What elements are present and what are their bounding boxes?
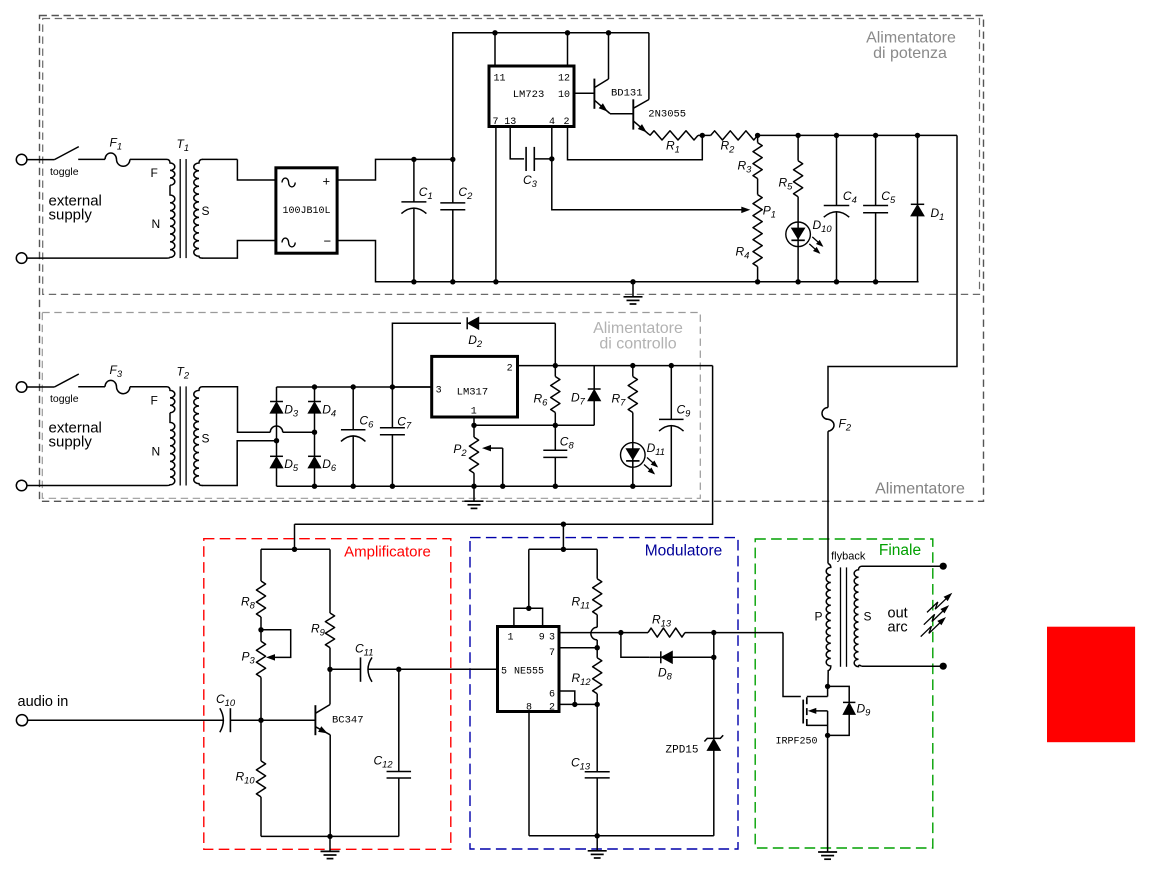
wire to distribution <box>295 366 713 525</box>
svg-text:supply: supply <box>49 207 93 224</box>
mod top rail <box>529 548 597 550</box>
junction <box>500 484 505 489</box>
junction <box>526 606 531 611</box>
wire secondary bottom to bridge <box>202 441 277 486</box>
mosfet Q4 IRPF250 <box>776 686 828 747</box>
svg-text:4: 4 <box>549 117 555 128</box>
wire <box>130 386 167 388</box>
wire output rail <box>758 134 957 136</box>
wire <box>698 134 711 136</box>
resistor R7 <box>612 366 638 443</box>
svg-text:Alimentatore: Alimentatore <box>875 481 965 498</box>
junction <box>572 702 577 707</box>
svg-text:LM723: LM723 <box>513 89 545 101</box>
junction <box>630 484 635 489</box>
svg-text:ZPD15: ZPD15 <box>666 745 699 757</box>
enclosure Alimentatore di potenza (dashed box) <box>43 19 980 295</box>
wire <box>414 158 453 160</box>
wire secondary bottom <box>862 665 944 667</box>
svg-text:BD131: BD131 <box>611 88 643 100</box>
svg-text:7: 7 <box>549 648 555 659</box>
wire <box>78 158 105 160</box>
svg-text:S: S <box>202 204 210 218</box>
resistor R3 <box>738 135 763 178</box>
wire pin6 <box>559 691 575 704</box>
junction <box>700 133 705 138</box>
svg-text:13: 13 <box>504 117 516 128</box>
transistor Q1 BD131 <box>594 79 642 114</box>
terminal J1 (line input) <box>16 154 27 165</box>
transformer T2 <box>151 365 210 486</box>
pin 13 label <box>504 117 516 128</box>
wire pin2 loop <box>568 127 703 160</box>
wire <box>27 257 167 259</box>
pin 2 label <box>563 117 569 128</box>
svg-text:N: N <box>152 217 161 231</box>
transformer T3 flyback <box>815 551 872 687</box>
diode D4 <box>308 387 336 432</box>
junction <box>795 279 800 284</box>
diode D6 <box>308 432 337 486</box>
pin 12 label <box>558 74 570 85</box>
regulator U1 LM723 <box>489 66 574 127</box>
wire <box>202 241 276 259</box>
capacitor C4 <box>824 135 857 281</box>
junction <box>565 30 570 35</box>
junction <box>390 484 395 489</box>
diode D5 <box>270 441 299 487</box>
junction <box>450 157 455 162</box>
wire pin1 <box>474 417 594 425</box>
junction <box>755 133 760 138</box>
ground <box>624 282 643 304</box>
potentiometer P2 <box>453 425 478 486</box>
svg-text:Modulatore: Modulatore <box>645 543 723 560</box>
junction <box>471 423 476 428</box>
capacitor C11 <box>330 642 399 682</box>
wire <box>337 241 414 282</box>
terminal out+ <box>940 563 947 570</box>
terminal out- <box>940 663 947 670</box>
wire to NE555 pin5 <box>399 668 498 670</box>
wire amp feed <box>294 524 296 549</box>
amp bottom rail <box>261 835 399 837</box>
switch S1 toggle <box>50 147 79 178</box>
terminal J3 (line input 2) <box>16 382 27 393</box>
svg-text:LM317: LM317 <box>457 386 489 398</box>
P3 wiper loop <box>261 630 291 661</box>
transistor Q3 BC347 <box>315 705 363 736</box>
bottom rail potenza <box>376 281 919 283</box>
pin 1 label <box>471 407 477 418</box>
timer U3 NE555 <box>498 627 560 712</box>
svg-text:3: 3 <box>436 386 442 397</box>
diode D1 <box>911 135 945 281</box>
junction <box>312 384 317 389</box>
pin 10 label <box>558 90 570 101</box>
wire mod feed <box>562 524 564 549</box>
svg-text:+: + <box>323 174 331 189</box>
fuse F1 <box>105 136 130 167</box>
junction <box>630 363 635 368</box>
pin1 loop <box>514 608 543 626</box>
capacitor C7 <box>380 387 412 486</box>
wire pin11 <box>494 33 496 66</box>
svg-text:−: − <box>324 234 332 249</box>
resistor R12 <box>572 648 602 705</box>
pin 3 label <box>436 386 442 397</box>
svg-text:flyback: flyback <box>831 551 866 563</box>
potentiometer P3 <box>242 630 266 720</box>
wire secondary top to bridge <box>202 387 315 432</box>
capacitor C10 <box>216 692 261 732</box>
junction <box>258 627 263 632</box>
junction <box>258 718 263 723</box>
red marker rectangle <box>1047 627 1135 743</box>
junction <box>493 279 498 284</box>
wire pin7 <box>495 127 497 282</box>
svg-text:Alimentatore: Alimentatore <box>866 30 956 47</box>
label external supply <box>49 193 102 224</box>
junction <box>553 484 558 489</box>
wire <box>827 431 829 563</box>
svg-text:2: 2 <box>549 703 555 714</box>
resistor R6 <box>534 366 560 426</box>
wire <box>337 159 414 180</box>
wire to P1 wiper <box>552 159 751 213</box>
resistor R13 <box>621 613 714 638</box>
wire mod out <box>714 632 783 634</box>
svg-text:IRPF250: IRPF250 <box>776 737 818 748</box>
junction <box>351 484 356 489</box>
junction <box>274 438 279 443</box>
junction <box>873 279 878 284</box>
svg-text:S: S <box>202 431 210 445</box>
ground <box>465 486 484 508</box>
diode D3 <box>270 387 299 441</box>
wire pin3 <box>559 632 621 634</box>
wire pin4 <box>551 127 553 159</box>
diode D8 <box>649 651 714 681</box>
pin 3 label <box>549 633 555 644</box>
svg-text:7: 7 <box>493 117 499 128</box>
pin 1 label <box>508 633 514 644</box>
resistor R4 <box>736 231 763 282</box>
wire D2 to rail <box>554 323 556 365</box>
wire base <box>261 719 315 721</box>
svg-text:11: 11 <box>494 74 506 85</box>
svg-text:10: 10 <box>558 90 570 101</box>
capacitor C1 <box>401 159 432 281</box>
wire BD131 collector <box>608 33 610 79</box>
junction <box>630 279 635 284</box>
svg-text:di potenza: di potenza <box>873 45 947 62</box>
wire <box>713 633 715 658</box>
led D10 <box>786 218 833 254</box>
svg-text:6: 6 <box>549 690 555 701</box>
svg-text:2N3055: 2N3055 <box>648 109 686 121</box>
pin 5 label <box>501 667 507 678</box>
junction <box>915 133 920 138</box>
wire <box>632 467 634 486</box>
capacitor C3 <box>523 147 552 189</box>
svg-text:2: 2 <box>507 363 513 374</box>
wire <box>202 158 237 160</box>
wire <box>27 386 54 388</box>
junction <box>595 833 600 838</box>
enclosure Modulatore (blue dashed box) <box>470 538 738 849</box>
enclosure Amplificatore (red dashed box) <box>204 539 451 850</box>
svg-text:P: P <box>815 610 823 624</box>
junction <box>595 645 600 650</box>
svg-text:F: F <box>151 393 158 407</box>
regulator U2 LM317 <box>432 356 518 417</box>
wire pin3 <box>392 386 431 388</box>
svg-text:1: 1 <box>508 633 514 644</box>
rectifier B1 100JB10L <box>276 168 337 253</box>
ground <box>818 848 837 860</box>
junction <box>396 667 401 672</box>
wire pin12 <box>567 33 569 66</box>
svg-text:supply: supply <box>49 434 93 451</box>
junction <box>873 133 878 138</box>
junction <box>312 430 317 435</box>
wire pin13 C3 feed <box>510 127 524 159</box>
junction <box>834 279 839 284</box>
wire <box>78 386 105 388</box>
enclosure Alimentatore (outer dashed box) <box>40 16 984 502</box>
pin 11 label <box>494 74 506 85</box>
ground <box>588 836 607 858</box>
resistor R2 <box>711 131 758 155</box>
junction <box>450 279 455 284</box>
wire <box>237 159 276 180</box>
junction <box>471 484 476 489</box>
junction <box>549 156 554 161</box>
mod bottom rail <box>529 835 714 837</box>
junction <box>411 157 416 162</box>
pin 6 label <box>549 690 555 701</box>
junction <box>292 547 297 552</box>
zener ZPD15 <box>666 657 724 836</box>
transformer T1 <box>151 137 210 258</box>
wire hop <box>591 627 597 647</box>
junction <box>825 684 830 689</box>
svg-text:toggle: toggle <box>50 166 79 178</box>
bottom rail controllo <box>277 485 672 487</box>
svg-text:Finale: Finale <box>879 542 921 559</box>
capacitor C2 <box>440 159 473 281</box>
fuse F3 <box>105 363 130 394</box>
svg-text:3: 3 <box>549 633 555 644</box>
enclosure Alimentatore di controllo (dashed box) <box>42 313 700 499</box>
wire source <box>827 735 829 848</box>
junction <box>561 522 566 527</box>
junction <box>755 279 760 284</box>
resistor R11 <box>572 549 602 627</box>
wire to F2 <box>828 135 957 407</box>
potentiometer P1 <box>753 179 776 231</box>
junction <box>834 133 839 138</box>
svg-text:arc: arc <box>888 620 908 636</box>
pin 8 label <box>526 703 532 714</box>
junction <box>795 133 800 138</box>
capacitor C8 <box>543 425 574 486</box>
terminal J5 audio in <box>16 694 68 726</box>
junction <box>606 30 611 35</box>
amp top rail <box>261 548 330 550</box>
wire <box>797 247 799 282</box>
svg-text:Amplificatore: Amplificatore <box>344 544 431 561</box>
capacitor C13 <box>571 704 610 835</box>
diode D2 <box>467 317 555 349</box>
svg-text:2: 2 <box>563 117 569 128</box>
capacitor C12 <box>374 669 412 836</box>
terminal J4 (neutral input 2) <box>16 480 27 491</box>
wire D8 branch <box>621 633 649 658</box>
enclosure Finale (green dashed box) <box>755 539 933 848</box>
fuse F2 <box>822 408 852 433</box>
led D11 <box>621 441 666 475</box>
wire top rail <box>453 33 649 160</box>
junction <box>351 384 356 389</box>
resistor R9 <box>311 549 335 669</box>
svg-text:BC347: BC347 <box>332 715 364 727</box>
junction <box>669 363 674 368</box>
junction <box>411 279 416 284</box>
wire secondary top <box>862 565 944 567</box>
label external supply 2 <box>49 420 102 451</box>
junction <box>327 834 332 839</box>
wire <box>27 485 167 487</box>
wire gate feed <box>783 633 801 697</box>
bridge top rail <box>277 386 432 388</box>
wire pin7 <box>559 647 597 649</box>
svg-text:S: S <box>864 610 872 624</box>
svg-text:toggle: toggle <box>50 393 79 405</box>
junction <box>561 547 566 552</box>
junction <box>312 484 317 489</box>
svg-text:1: 1 <box>471 407 477 418</box>
output rail LM317 <box>518 365 713 367</box>
junction <box>390 384 395 389</box>
transistor Q2 2N3055 <box>633 99 686 134</box>
junction <box>553 363 558 368</box>
ground <box>321 836 340 858</box>
wire <box>130 158 167 160</box>
resistor R10 <box>236 720 266 836</box>
wire <box>649 134 651 135</box>
pin 7 label <box>549 648 555 659</box>
pin 9 label <box>539 633 545 644</box>
capacitor C9 <box>659 366 691 487</box>
P2 wiper <box>482 445 503 486</box>
pin 4 label <box>549 117 555 128</box>
wire pin1 feed <box>528 549 530 608</box>
svg-text:9: 9 <box>539 633 545 644</box>
arc spark arrows <box>921 593 953 637</box>
svg-text:F: F <box>151 166 158 180</box>
diode D9 <box>828 686 872 735</box>
junction <box>618 630 623 635</box>
diode D7 <box>571 366 601 426</box>
label out arc <box>888 606 908 636</box>
junction <box>327 667 332 672</box>
svg-text:N: N <box>152 444 161 458</box>
junction <box>492 30 497 35</box>
wire pin8 <box>528 712 530 836</box>
capacitor C6 <box>341 387 374 486</box>
wire pin2 <box>559 703 597 705</box>
wire <box>27 159 54 161</box>
resistor R5 <box>779 135 803 222</box>
junction <box>595 702 600 707</box>
wire Q2 collector <box>648 33 650 100</box>
pin 7 label <box>493 117 499 128</box>
wire emitter <box>329 735 331 837</box>
wire <box>28 719 224 721</box>
wire pin10 <box>574 92 594 94</box>
terminal J2 (neutral input) <box>16 253 27 264</box>
svg-text:di controllo: di controllo <box>599 335 676 352</box>
resistor R1 <box>650 131 698 155</box>
junction <box>825 733 830 738</box>
svg-text:100JB10L: 100JB10L <box>282 206 330 217</box>
wire collector <box>329 669 331 704</box>
pin 2 label <box>507 363 513 374</box>
svg-text:5: 5 <box>501 667 507 678</box>
svg-text:12: 12 <box>558 74 570 85</box>
pin 2 label <box>549 703 555 714</box>
junction <box>553 423 558 428</box>
wire D2 branch <box>392 323 461 387</box>
svg-text:NE555: NE555 <box>514 667 544 678</box>
switch S2 toggle <box>50 374 79 405</box>
capacitor C5 <box>863 135 896 281</box>
junction <box>711 655 716 660</box>
resistor R8 <box>241 549 266 630</box>
wire BD131 emitter to Q2 base <box>610 113 633 115</box>
svg-text:audio in: audio in <box>18 694 69 710</box>
junction <box>711 630 716 635</box>
